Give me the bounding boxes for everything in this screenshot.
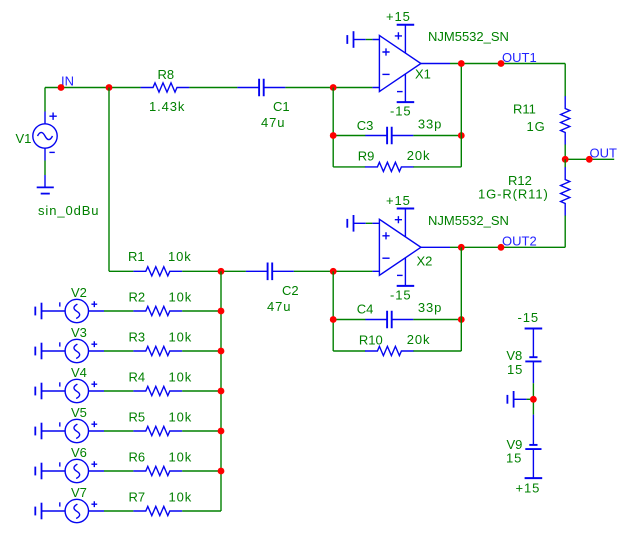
svg-text:10k: 10k (169, 490, 193, 505)
svg-text:+15: +15 (386, 193, 411, 208)
ground V4 (35, 383, 41, 400)
wire IN row from V1 to R8 (45, 87, 141, 89)
svg-text:R9: R9 (358, 149, 375, 164)
svg-text:R2: R2 (129, 290, 146, 305)
capacitor C2 (246, 263, 294, 281)
junction dot C3 left (330, 132, 337, 139)
wire C3 row left (333, 135, 365, 137)
voltage source V2 (42, 299, 104, 322)
wire OUT stub (565, 158, 614, 160)
wire V5 to R5 (104, 430, 133, 432)
svg-text:C4: C4 (357, 301, 374, 316)
junction dot at drop column (106, 84, 113, 91)
wire R10 row left (333, 350, 365, 352)
svg-text:V4: V4 (71, 365, 87, 380)
junction dot X1 output (458, 60, 465, 67)
wire V7 to R7 (104, 510, 133, 512)
ground V2 (35, 303, 41, 320)
junction dot row V4 (218, 388, 225, 395)
junction dot X2 feedback left (330, 268, 337, 275)
svg-text:15: 15 (506, 451, 522, 466)
resistor R9 (365, 162, 414, 171)
wire X2 feedback left rail (332, 271, 334, 351)
junction dot X1 feedback left (330, 84, 337, 91)
wire R10 row right (413, 350, 461, 352)
wire V1 bottom (44, 161, 46, 176)
svg-text:1.43k: 1.43k (149, 99, 185, 114)
wire R9 row left (333, 166, 365, 168)
svg-text:-15: -15 (390, 103, 412, 118)
svg-text:V8: V8 (506, 348, 522, 363)
wire C1 to X1 inverting input (285, 87, 372, 89)
junction dot row V5 (218, 428, 225, 435)
wire R1 to C2 (182, 270, 246, 272)
voltage source V5 (42, 419, 104, 442)
svg-text:C2: C2 (282, 283, 299, 298)
resistor R3 (133, 346, 182, 355)
svg-text:10k: 10k (169, 410, 193, 425)
wire drop column IN to R1 (108, 88, 110, 272)
junction dot X2 output (458, 244, 465, 251)
battery V9 (525, 445, 541, 449)
wire C4 row left (333, 319, 365, 321)
svg-text:20k: 20k (407, 332, 431, 347)
svg-text:C1: C1 (273, 99, 290, 114)
node OUT1 dot (498, 60, 505, 67)
pin V9 to +15 terminal (532, 449, 534, 478)
pin V9 top (532, 415, 534, 445)
svg-text:V7: V7 (71, 485, 87, 500)
wire V6 to R6 (104, 470, 133, 472)
svg-text:15: 15 (507, 362, 523, 377)
voltage source V4 (42, 379, 104, 402)
junction dot C4 left (330, 316, 337, 323)
resistor R2 (133, 306, 182, 315)
resistor R11 (561, 96, 570, 145)
resistor R7 (133, 506, 182, 515)
svg-text:R10: R10 (359, 333, 383, 348)
wire R1 row left (109, 270, 133, 272)
pin -15 terminal to V8 (532, 329, 534, 358)
wire V1 top (44, 88, 46, 112)
junction dot row V2 (218, 308, 225, 315)
wire V2 to R2 (104, 310, 133, 312)
wire R2 to column (182, 310, 221, 312)
wire C3 row right (413, 135, 461, 137)
capacitor C3 (365, 127, 413, 145)
svg-text:-15: -15 (390, 287, 412, 302)
svg-text:10k: 10k (169, 450, 193, 465)
svg-text:1G-R(R11): 1G-R(R11) (478, 187, 549, 202)
resistor R8 (141, 83, 190, 92)
battery V8 (525, 357, 541, 361)
wire ground to X1 plus input (366, 39, 373, 41)
voltage source V7 (42, 499, 104, 522)
resistor R1 (133, 267, 182, 276)
ground V3 (35, 343, 41, 360)
wire R3 to column (182, 350, 221, 352)
svg-text:1G: 1G (527, 119, 546, 134)
supply terminal -15 top of V8 (525, 328, 543, 330)
junction dot row V6 (218, 468, 225, 475)
wire X1 feedback right rail (460, 64, 462, 167)
wire R6 to column (182, 470, 221, 472)
wire R9 row right (413, 166, 461, 168)
resistor R10 (365, 346, 414, 355)
wire V3 to R3 (104, 350, 133, 352)
svg-text:33p: 33p (418, 117, 442, 132)
capacitor C1 (237, 79, 285, 97)
svg-text:+15: +15 (386, 9, 411, 24)
ground at X1 non-inverting input (347, 31, 366, 48)
resistor R5 (133, 426, 182, 435)
ground V1 (37, 175, 54, 194)
junction dot C3 right (458, 132, 465, 139)
junction dot mixing column top (218, 268, 225, 275)
wire R8 to C1 (189, 87, 237, 89)
ground mid supply (507, 391, 526, 408)
svg-text:R8: R8 (158, 67, 175, 82)
wire C4 row right (413, 319, 461, 321)
junction dot IN (58, 84, 65, 91)
svg-text:R1: R1 (128, 249, 145, 264)
svg-text:10k: 10k (169, 370, 193, 385)
wire R5 to column (182, 430, 221, 432)
ground V6 (35, 463, 41, 480)
svg-text:OUT2: OUT2 (502, 234, 537, 249)
svg-text:-15: -15 (518, 310, 540, 325)
svg-text:R11: R11 (513, 101, 536, 116)
junction dot row V3 (218, 348, 225, 355)
svg-text:V2: V2 (71, 285, 87, 300)
junction dot R11 R12 (562, 156, 569, 163)
svg-text:20k: 20k (407, 148, 431, 163)
svg-text:R6: R6 (129, 450, 146, 465)
wire V8 to mid node (532, 383, 534, 414)
voltage source V1 (33, 112, 57, 161)
ground at X2 non-inverting input (347, 215, 366, 232)
svg-text:10k: 10k (169, 330, 193, 345)
wire OUT to R12 (564, 159, 566, 167)
svg-text:X1: X1 (415, 66, 431, 81)
svg-text:+15: +15 (516, 481, 541, 496)
voltage source V6 (42, 459, 104, 482)
svg-text:47u: 47u (267, 299, 291, 314)
wire ground to mid node (527, 398, 534, 400)
svg-text:R5: R5 (129, 410, 146, 425)
svg-text:47u: 47u (261, 115, 285, 130)
wire mixing column (220, 271, 222, 511)
resistor R6 (133, 466, 182, 475)
wire R7 to column (182, 510, 221, 512)
svg-text:NJM5532_SN: NJM5532_SN (428, 29, 509, 44)
supply terminal +15 bottom of V9 (525, 477, 543, 479)
wire X2 feedback right rail (460, 247, 462, 351)
wire right column above R11 (564, 64, 566, 97)
svg-text:33p: 33p (418, 300, 442, 315)
pin V8 bottom (532, 361, 534, 383)
svg-text:X2: X2 (417, 253, 433, 268)
resistor R12 (561, 167, 570, 216)
svg-text:OUT: OUT (590, 145, 618, 160)
svg-text:R4: R4 (129, 370, 146, 385)
capacitor C4 (365, 311, 413, 329)
svg-text:V3: V3 (71, 325, 87, 340)
wire OUT2 row (450, 246, 565, 248)
svg-text:V1: V1 (16, 131, 32, 146)
wire R4 to column (182, 390, 221, 392)
svg-text:V5: V5 (71, 405, 87, 420)
svg-text:V6: V6 (71, 445, 87, 460)
node OUT dot (586, 156, 593, 163)
op-amp X2 (372, 209, 450, 286)
resistor R4 (133, 386, 182, 395)
wire V4 to R4 (104, 390, 133, 392)
junction dot mid supply (530, 396, 537, 403)
svg-text:OUT1: OUT1 (502, 50, 537, 65)
svg-text:10k: 10k (169, 290, 193, 305)
junction dot C4 right (458, 316, 465, 323)
ground V5 (35, 423, 41, 440)
svg-text:sin_0dBu: sin_0dBu (38, 203, 99, 218)
svg-text:10k: 10k (168, 249, 192, 264)
svg-text:C3: C3 (357, 118, 374, 133)
svg-text:R7: R7 (129, 490, 146, 505)
wire OUT1 row (450, 63, 565, 65)
wire ground to X2 plus input (366, 222, 373, 224)
node OUT2 dot (498, 244, 505, 251)
op-amp X1 (372, 25, 450, 102)
wire C2 to X2 inverting input (294, 270, 373, 272)
wire X1 feedback left rail (332, 88, 334, 167)
svg-text:NJM5532_SN: NJM5532_SN (428, 213, 509, 228)
wire R12 down to OUT2 row (564, 216, 566, 248)
wire R11 to OUT (564, 145, 566, 160)
svg-text:R3: R3 (129, 330, 146, 345)
voltage source V3 (42, 339, 104, 362)
ground V7 (35, 503, 41, 520)
